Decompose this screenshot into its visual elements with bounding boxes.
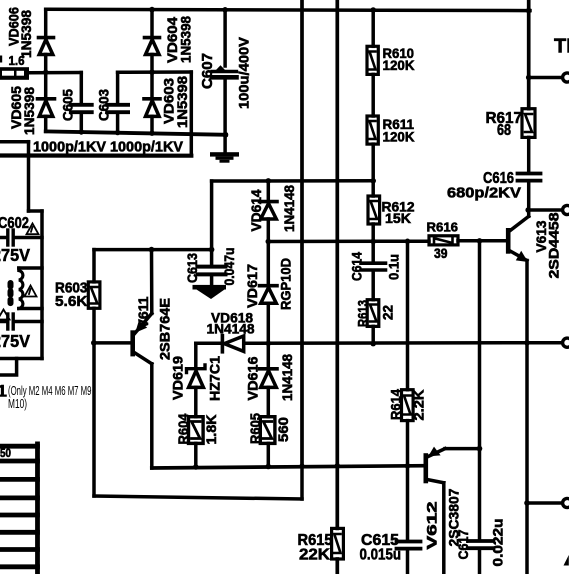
ground below C613 [193, 285, 227, 299]
diode VD603 [144, 72, 160, 133]
diode VD604 [145, 10, 160, 73]
wire fuse to node [29, 71, 81, 75]
resistor R611 [367, 116, 378, 144]
wire rail C x=528.7 top [527, 0, 531, 109]
capacitor C615 [397, 466, 421, 574]
svg-text:1.8K: 1.8K [204, 414, 219, 444]
resistor R604 [189, 417, 204, 444]
node C613 top junction [209, 247, 215, 253]
resistor R614 [402, 390, 414, 421]
terminal pin 2 [563, 205, 569, 214]
node R603 bottom junction [91, 340, 97, 346]
wire terminal 2 [528, 208, 562, 212]
wire VD619 corner [194, 343, 198, 367]
capacitor C601 [0, 314, 42, 329]
wire 1000p box left edge [27, 142, 31, 156]
svg-text:120K: 120K [383, 128, 415, 144]
node C607 bottom bus [223, 132, 229, 138]
transistor V613 [508, 216, 529, 262]
wire R615 bottom [335, 559, 339, 574]
svg-text:1N4148: 1N4148 [280, 354, 295, 401]
capacitor C603 [107, 72, 128, 132]
wire jog right [29, 209, 43, 213]
svg-text:C607: C607 [200, 53, 216, 89]
svg-text:M10): M10) [8, 396, 27, 411]
terminal pin 1 [563, 73, 569, 82]
node C607 top [222, 7, 228, 13]
wire R614 column upper [406, 241, 410, 389]
svg-text:1N5398: 1N5398 [19, 10, 34, 58]
wire winding top jog [19, 266, 42, 270]
node VD606/VD605 junction [43, 70, 49, 76]
wire C613 column top corner [210, 181, 214, 265]
svg-text:C617: C617 [456, 530, 471, 560]
resistor R603 [88, 282, 100, 308]
svg-text:R614: R614 [389, 389, 404, 420]
svg-text:100u/400V: 100u/400V [236, 36, 252, 109]
corner triangle mark [564, 555, 569, 566]
wire y181 horizontal [212, 179, 374, 183]
svg-text:680p/2KV: 680p/2KV [447, 185, 521, 202]
wire R612 to bus241 [371, 224, 375, 242]
wire top bus [46, 9, 530, 10]
label edge fragment [0, 56, 2, 63]
diode VD616 [260, 343, 278, 416]
safety triangle mark 2 [25, 286, 37, 297]
wire R614 bottom [406, 421, 410, 467]
wire V612 emitter down [442, 483, 446, 574]
resistor R617 [522, 109, 535, 138]
node C603 bottom [115, 130, 120, 135]
node top wire rail C [526, 8, 532, 14]
svg-text:R616: R616 [427, 220, 459, 235]
connector ladder box [0, 444, 38, 574]
wire y496 up to bus [300, 466, 304, 499]
resistor R615 [332, 528, 344, 559]
svg-text:V611: V611 [136, 296, 151, 328]
node terminal 2 [525, 207, 531, 213]
node R605 bottom [266, 464, 272, 470]
svg-text:1N5398: 1N5398 [175, 75, 190, 128]
svg-text:68: 68 [497, 122, 511, 139]
svg-text:C613: C613 [185, 253, 200, 283]
svg-text:39: 39 [434, 245, 448, 261]
svg-text:120K: 120K [383, 57, 415, 73]
svg-text:2SB764E: 2SB764E [158, 298, 173, 360]
svg-text:R604: R604 [176, 413, 191, 444]
capacitor C617 [468, 541, 494, 574]
node R613 bottom on wire343 [370, 341, 376, 347]
svg-text:1.6: 1.6 [9, 53, 25, 68]
zener diode VD619 [187, 365, 206, 417]
wire terminal 1 [529, 76, 562, 80]
inductor winding [19, 268, 23, 309]
svg-text:V612: V612 [425, 502, 440, 550]
svg-text:HZ7C1: HZ7C1 [208, 355, 223, 401]
svg-text:0.015u: 0.015u [360, 547, 402, 564]
resistor R612 [368, 196, 380, 224]
wire junction left to C613 [94, 248, 212, 252]
wire right drop to bottom bus [190, 72, 194, 156]
wire y343 main [196, 341, 562, 345]
wire rectifier bottom bus [46, 131, 226, 134]
node R614 top [405, 239, 411, 245]
capacitor C613 [198, 267, 226, 285]
node terminal 1 [526, 75, 532, 81]
diode VD605 [38, 72, 55, 131]
terminal pin 3 [563, 338, 569, 347]
safety triangle mark 1 [27, 224, 39, 235]
wire 1000p box bottom line [0, 153, 191, 157]
svg-text:560: 560 [276, 417, 291, 442]
wire R613 bottom [371, 326, 375, 343]
svg-text:1N4148: 1N4148 [207, 321, 255, 337]
svg-text:1N4148: 1N4148 [282, 185, 297, 232]
svg-text:15K: 15K [385, 210, 411, 226]
wire rail B x=337.3 [335, 0, 339, 466]
svg-text:VD614: VD614 [249, 189, 264, 231]
svg-text:VD616: VD616 [246, 356, 261, 401]
node VD614 bottom bus241 [266, 239, 272, 245]
fuse 1.6 [0, 67, 29, 80]
wire rail B lower segment [335, 466, 339, 529]
node VD604/VD603 junction [149, 69, 155, 75]
node rail B on bus [335, 463, 341, 469]
svg-text:0.1u: 0.1u [387, 254, 402, 280]
svg-text:50: 50 [0, 448, 11, 460]
wire y496 bottom horizontal [94, 496, 302, 499]
wire bus y466 [152, 466, 425, 468]
wire R604 bottom [194, 443, 198, 467]
wire left drop from ground bus [27, 156, 31, 212]
safety triangle mark 3 [0, 310, 10, 320]
node VD614 top [266, 178, 272, 184]
wire rail A x=302 [300, 0, 304, 466]
transistor V611 [133, 313, 152, 363]
wire step down [0, 359, 17, 376]
diode VD618 [222, 336, 243, 352]
wire V612 collector to x479 [445, 447, 480, 451]
wire R610 top lead [371, 10, 375, 46]
node top wire VD604 [149, 7, 155, 13]
capacitor C616 [518, 174, 541, 217]
node terminal 4 [524, 500, 530, 506]
resistor R605 [260, 417, 275, 444]
wire bus y241 [268, 239, 429, 243]
svg-text:2.2K: 2.2K [412, 389, 427, 420]
svg-text:1N5398: 1N5398 [22, 87, 37, 135]
resistor R616 [429, 236, 458, 245]
svg-text:1000p/1KV 1000p/1KV: 1000p/1KV 1000p/1KV [33, 140, 183, 156]
svg-text:2SD4458: 2SD4458 [547, 212, 562, 279]
node V613 emitter on wire343 [524, 340, 530, 346]
wire R616 to V613 base [458, 239, 506, 243]
wire winding bottom jog [19, 307, 42, 311]
diode VD614 [260, 181, 278, 242]
svg-text:C602: C602 [0, 215, 29, 232]
node top wire R610 column [370, 7, 376, 13]
resistor R613 [367, 300, 379, 327]
svg-text:VD619: VD619 [171, 356, 186, 400]
wire R617 to C616 [527, 137, 531, 171]
capacitor C602 [0, 230, 42, 245]
svg-text:TH: TH [554, 36, 569, 58]
svg-text:1N5398: 1N5398 [179, 16, 194, 63]
svg-text:5.6K: 5.6K [55, 294, 88, 310]
diode VD617 [260, 242, 278, 344]
svg-text:275V: 275V [0, 331, 30, 351]
node R612 bottom [370, 239, 376, 245]
node R614/C615 on bus [405, 463, 411, 469]
svg-text:R613: R613 [356, 300, 371, 327]
inductor core dashes [8, 283, 14, 303]
resistor R610 [367, 46, 378, 74]
svg-text:RGP10D: RGP10D [279, 258, 294, 310]
wire R603 bottom [92, 308, 96, 343]
capacitor C605 [71, 73, 92, 133]
svg-text:22K: 22K [299, 547, 331, 564]
svg-text:0.022u: 0.022u [491, 519, 506, 567]
node V611 emitter junction [149, 247, 155, 253]
wire box bottom line [0, 357, 42, 361]
terminal pin 4 [563, 498, 569, 507]
node V612 collector junction [477, 446, 483, 452]
svg-text:1: 1 [0, 382, 7, 401]
wire 1000p box left line [0, 140, 29, 144]
svg-text:C614: C614 [350, 252, 365, 281]
wire R603 column to bottom [92, 343, 96, 496]
diode VD606 [39, 38, 54, 73]
wire R605 bottom [267, 443, 271, 466]
capacitor C607 electrolytic [212, 10, 237, 152]
wire emitter V611 vertical [150, 250, 154, 314]
node R604 bottom [193, 464, 199, 470]
wire R611 to wire181 [371, 144, 375, 196]
capacitor C614 [361, 242, 386, 300]
wire VD606 top lead [44, 9, 48, 36]
wire mid segment right [118, 70, 192, 74]
node C605 bottom [79, 129, 84, 134]
wire vertical x479 [478, 241, 482, 539]
node wire181 end [370, 178, 376, 184]
wire V611 collector down [150, 364, 154, 468]
wire R610-R611 [371, 74, 375, 116]
svg-text:0.047u: 0.047u [222, 248, 237, 286]
svg-text:VD617: VD617 [245, 264, 260, 308]
svg-text:R605: R605 [248, 413, 263, 444]
transistor V612 [426, 447, 445, 483]
wire base V611 [94, 341, 131, 345]
svg-text:C605: C605 [61, 89, 76, 121]
svg-text:275V: 275V [0, 245, 30, 265]
wire terminal 4 [527, 501, 562, 505]
wire V613 emitter vertical [525, 261, 529, 574]
node rail A bottom [299, 464, 305, 470]
wire left filter vertical [40, 211, 44, 359]
wire R603 top corner [92, 250, 96, 282]
svg-text:22: 22 [381, 305, 396, 320]
svg-text:C603: C603 [97, 89, 112, 121]
ground below C607 [210, 152, 239, 163]
node VD603 bottom [149, 131, 154, 136]
node VD617 bottom wire343 [266, 341, 272, 347]
node collector feed junction [477, 238, 483, 244]
